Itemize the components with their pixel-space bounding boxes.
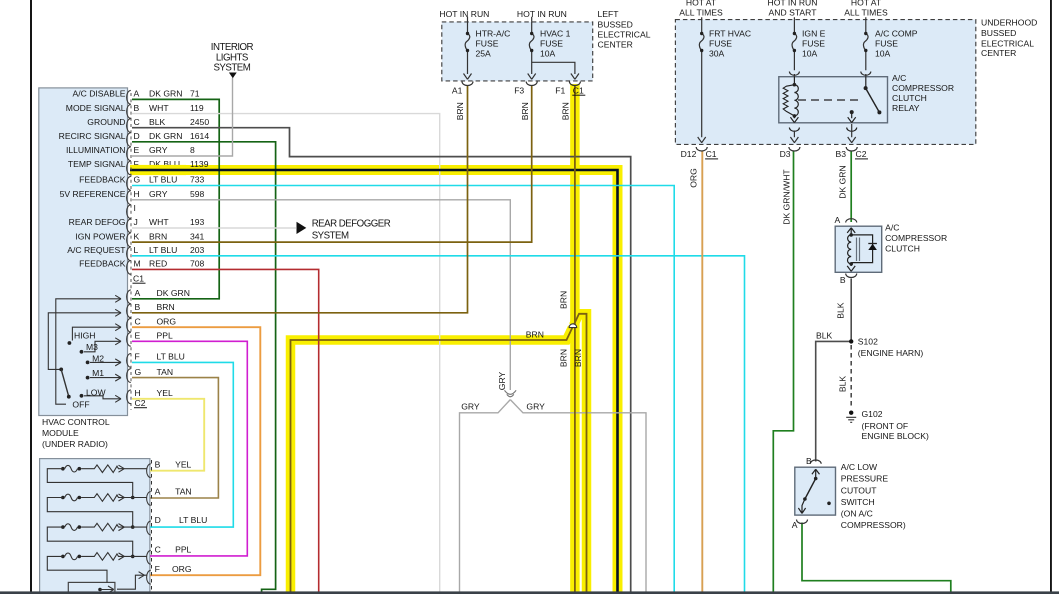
svg-text:HVAC CONTROL: HVAC CONTROL	[42, 417, 110, 427]
svg-text:A: A	[792, 520, 798, 530]
svg-text:A/C REQUEST: A/C REQUEST	[67, 245, 126, 255]
svg-text:SWITCH: SWITCH	[841, 497, 875, 507]
svg-text:TAN: TAN	[157, 367, 174, 377]
svg-text:ALL TIMES: ALL TIMES	[679, 8, 723, 18]
svg-text:HOT IN RUN: HOT IN RUN	[517, 9, 567, 19]
svg-text:FUSE: FUSE	[802, 39, 825, 49]
svg-text:C: C	[155, 545, 161, 555]
svg-text:BRN: BRN	[526, 330, 544, 340]
svg-text:C1: C1	[706, 149, 717, 159]
svg-text:598: 598	[190, 189, 205, 199]
svg-text:RELAY: RELAY	[892, 103, 920, 113]
svg-text:GRY: GRY	[149, 145, 168, 155]
svg-text:CLUTCH: CLUTCH	[885, 244, 920, 254]
svg-text:INTERIOR: INTERIOR	[211, 42, 254, 53]
svg-text:FRT HVAC: FRT HVAC	[709, 29, 751, 39]
svg-text:10A: 10A	[875, 49, 891, 59]
svg-text:M2: M2	[92, 354, 104, 364]
svg-text:G: G	[134, 175, 141, 185]
svg-text:ORG: ORG	[157, 316, 177, 326]
svg-text:30A: 30A	[709, 49, 725, 59]
svg-text:BUSSED: BUSSED	[598, 19, 633, 29]
svg-text:708: 708	[190, 259, 205, 269]
svg-text:G: G	[135, 367, 142, 377]
svg-text:FUSE: FUSE	[709, 39, 732, 49]
svg-text:ORG: ORG	[689, 168, 699, 188]
svg-text:BRN: BRN	[455, 102, 465, 120]
svg-text:COMPRESSOR): COMPRESSOR)	[841, 520, 906, 530]
svg-text:C2: C2	[135, 398, 146, 408]
svg-text:YEL: YEL	[157, 388, 173, 398]
svg-text:1614: 1614	[190, 131, 209, 141]
svg-text:10A: 10A	[802, 49, 818, 59]
svg-text:BRN: BRN	[561, 102, 571, 120]
svg-text:DK GRN: DK GRN	[149, 89, 182, 99]
svg-text:A/C COMP: A/C COMP	[875, 29, 918, 39]
svg-text:A1: A1	[452, 85, 463, 95]
svg-text:C2: C2	[856, 149, 867, 159]
svg-text:ILLUMINATION: ILLUMINATION	[66, 145, 126, 155]
svg-text:2450: 2450	[190, 117, 209, 127]
svg-text:C1: C1	[133, 273, 144, 283]
svg-text:C1: C1	[573, 85, 584, 95]
svg-text:CENTER: CENTER	[598, 40, 633, 50]
svg-text:LT BLU: LT BLU	[149, 175, 177, 185]
svg-text:PPL: PPL	[175, 545, 191, 555]
svg-text:BLK: BLK	[837, 376, 847, 393]
svg-text:TEMP SIGNAL: TEMP SIGNAL	[68, 159, 126, 169]
svg-text:B: B	[155, 460, 161, 470]
svg-text:M: M	[134, 259, 141, 269]
svg-text:FUSE: FUSE	[540, 39, 563, 49]
svg-text:A/C DISABLE: A/C DISABLE	[72, 89, 125, 99]
svg-text:193: 193	[190, 217, 205, 227]
svg-text:FEEDBACK: FEEDBACK	[79, 175, 126, 185]
svg-text:ALL TIMES: ALL TIMES	[844, 8, 888, 18]
svg-text:LT BLU: LT BLU	[179, 515, 207, 525]
svg-text:A: A	[834, 215, 840, 225]
svg-text:HOT AT: HOT AT	[686, 0, 717, 7]
svg-text:GRY: GRY	[149, 189, 168, 199]
svg-text:A: A	[135, 288, 141, 298]
svg-text:B3: B3	[836, 149, 847, 159]
svg-text:OFF: OFF	[72, 399, 89, 409]
svg-text:GROUND: GROUND	[87, 117, 125, 127]
svg-text:IGN POWER: IGN POWER	[75, 231, 125, 241]
svg-text:ELECTRICAL: ELECTRICAL	[598, 29, 651, 39]
svg-text:(UNDER RADIO): (UNDER RADIO)	[42, 439, 108, 449]
svg-text:RECIRC SIGNAL: RECIRC SIGNAL	[59, 131, 126, 141]
svg-text:B: B	[806, 456, 812, 466]
svg-text:H: H	[135, 388, 141, 398]
svg-text:GRY: GRY	[526, 402, 545, 412]
svg-text:M1: M1	[92, 368, 104, 378]
svg-text:BLK: BLK	[149, 117, 166, 127]
svg-text:B: B	[135, 302, 141, 312]
svg-text:SYSTEM: SYSTEM	[312, 231, 349, 242]
svg-text:(ON A/C: (ON A/C	[841, 508, 873, 518]
svg-text:MODE SIGNAL: MODE SIGNAL	[66, 103, 126, 113]
svg-text:TAN: TAN	[175, 487, 192, 497]
svg-text:G102: G102	[862, 409, 883, 419]
svg-text:B: B	[840, 275, 846, 285]
svg-text:WHT: WHT	[149, 103, 169, 113]
svg-text:E: E	[134, 145, 140, 155]
svg-text:D: D	[155, 515, 161, 525]
svg-text:J: J	[134, 217, 138, 227]
svg-text:A/C: A/C	[892, 73, 906, 83]
svg-text:341: 341	[190, 231, 205, 241]
svg-text:F: F	[155, 564, 160, 574]
svg-text:A: A	[134, 89, 140, 99]
svg-text:H: H	[134, 189, 140, 199]
svg-text:PRESSURE: PRESSURE	[841, 474, 889, 484]
svg-text:F1: F1	[555, 85, 565, 95]
svg-text:5V REFERENCE: 5V REFERENCE	[60, 189, 126, 199]
svg-text:ORG: ORG	[172, 564, 192, 574]
svg-text:A/C: A/C	[885, 223, 899, 233]
svg-text:(ENGINE HARN): (ENGINE HARN)	[858, 348, 924, 358]
svg-text:IGN E: IGN E	[802, 29, 826, 39]
svg-text:FUSE: FUSE	[875, 39, 898, 49]
svg-text:ENGINE BLOCK): ENGINE BLOCK)	[862, 431, 929, 441]
svg-text:733: 733	[190, 175, 205, 185]
svg-text:MODULE: MODULE	[42, 428, 79, 438]
svg-text:GRY: GRY	[461, 402, 480, 412]
svg-text:L: L	[134, 245, 139, 255]
svg-text:A/C LOW: A/C LOW	[841, 462, 878, 472]
svg-text:SYSTEM: SYSTEM	[213, 63, 250, 74]
svg-text:C: C	[134, 117, 140, 127]
svg-text:10A: 10A	[540, 49, 556, 59]
svg-text:AND START: AND START	[769, 8, 818, 18]
svg-text:CENTER: CENTER	[981, 48, 1016, 58]
svg-text:FEEDBACK: FEEDBACK	[79, 259, 126, 269]
svg-text:(FRONT OF: (FRONT OF	[862, 421, 909, 431]
svg-text:COMPRESSOR: COMPRESSOR	[892, 83, 954, 93]
svg-text:HOT IN RUN: HOT IN RUN	[439, 9, 489, 19]
svg-text:BRN: BRN	[559, 291, 569, 309]
svg-text:D3: D3	[780, 149, 791, 159]
svg-text:HIGH: HIGH	[74, 330, 95, 340]
svg-text:I: I	[134, 203, 136, 213]
svg-text:BLK: BLK	[836, 302, 846, 319]
svg-text:D: D	[134, 131, 140, 141]
svg-text:DK GRN: DK GRN	[149, 131, 182, 141]
svg-text:DK GRN: DK GRN	[157, 288, 190, 298]
svg-text:8: 8	[190, 145, 195, 155]
svg-text:M3: M3	[86, 342, 98, 352]
svg-text:F3: F3	[514, 85, 524, 95]
svg-text:BRN: BRN	[149, 231, 167, 241]
svg-text:BRN: BRN	[559, 349, 569, 367]
svg-text:HOT AT: HOT AT	[851, 0, 882, 7]
svg-text:LT BLU: LT BLU	[157, 352, 185, 362]
svg-text:LOW: LOW	[86, 387, 106, 397]
svg-text:D12: D12	[681, 149, 697, 159]
svg-text:COMPRESSOR: COMPRESSOR	[885, 233, 947, 243]
svg-text:HVAC 1: HVAC 1	[540, 29, 571, 39]
svg-text:WHT: WHT	[149, 217, 169, 227]
svg-text:119: 119	[190, 103, 204, 113]
svg-text:HTR-A/C: HTR-A/C	[476, 29, 511, 39]
svg-text:REAR DEFOGGER: REAR DEFOGGER	[312, 219, 391, 230]
svg-text:A: A	[155, 487, 161, 497]
svg-text:C: C	[135, 316, 141, 326]
svg-text:ELECTRICAL: ELECTRICAL	[981, 38, 1034, 48]
svg-text:BRN: BRN	[157, 302, 175, 312]
svg-text:GRY: GRY	[497, 371, 507, 390]
svg-text:DK GRN/WHT: DK GRN/WHT	[781, 169, 791, 225]
svg-text:LEFT: LEFT	[598, 9, 620, 19]
svg-text:BUSSED: BUSSED	[981, 28, 1016, 38]
svg-text:BRN: BRN	[520, 102, 530, 120]
svg-text:UNDERHOOD: UNDERHOOD	[981, 18, 1037, 28]
svg-text:FUSE: FUSE	[476, 39, 499, 49]
svg-text:PPL: PPL	[157, 331, 173, 341]
svg-text:LT BLU: LT BLU	[149, 245, 177, 255]
svg-text:1139: 1139	[190, 159, 209, 169]
svg-text:YEL: YEL	[175, 460, 191, 470]
svg-text:K: K	[134, 231, 140, 241]
svg-text:RED: RED	[149, 259, 167, 269]
svg-text:CLUTCH: CLUTCH	[892, 93, 927, 103]
svg-text:203: 203	[190, 245, 205, 255]
svg-text:CUTOUT: CUTOUT	[841, 485, 877, 495]
svg-text:B: B	[134, 103, 140, 113]
svg-text:BLK: BLK	[816, 330, 833, 340]
svg-text:BRN: BRN	[573, 349, 583, 367]
svg-text:REAR DEFOG: REAR DEFOG	[69, 217, 126, 227]
svg-text:HOT IN RUN: HOT IN RUN	[768, 0, 818, 7]
svg-text:E: E	[135, 331, 141, 341]
svg-text:DK GRN: DK GRN	[838, 165, 848, 198]
svg-text:71: 71	[190, 89, 200, 99]
svg-text:F: F	[135, 352, 140, 362]
svg-text:S102: S102	[858, 336, 878, 346]
svg-text:25A: 25A	[476, 49, 492, 59]
